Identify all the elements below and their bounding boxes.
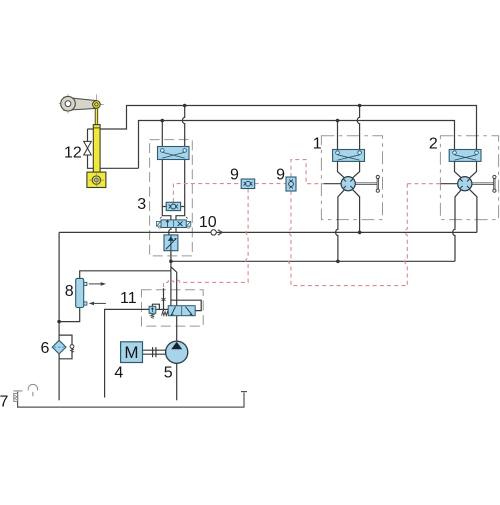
pilot operated check valve in block 3 bbox=[166, 202, 180, 210]
junction rail A / valve 3 bbox=[183, 104, 187, 108]
wire ball 1 lever arm bbox=[355, 178, 378, 189]
check valve 9a bbox=[241, 179, 255, 189]
filter 6 bbox=[52, 340, 66, 354]
pilot line valve 9a to valve 11 bbox=[164, 189, 249, 289]
wire valve 11 feedback loop bbox=[171, 300, 201, 310]
node 10 coupling bbox=[211, 230, 222, 235]
wire ball 2 bottom right to rail 1 bbox=[470, 190, 477, 233]
junction rail 1 / ball 1 bbox=[358, 231, 362, 235]
wire cooler feed bbox=[80, 271, 171, 279]
brake actuator rectangle of block 1 bbox=[333, 150, 365, 162]
wire rail 1 (node 10 line) bbox=[59, 231, 477, 233]
pilot line stub to ball 2 bbox=[407, 183, 440, 185]
heat exchanger 8 bbox=[76, 278, 106, 307]
wire bypass valve 12 upper bbox=[87, 129, 89, 141]
svg-text:1: 1 bbox=[313, 136, 322, 153]
svg-text:9: 9 bbox=[276, 167, 285, 184]
svg-text:3: 3 bbox=[137, 196, 146, 213]
wire ball 2 bottom left to rail 2 (hop over rail 1) bbox=[453, 190, 462, 262]
wire rail 2 bbox=[171, 260, 455, 262]
relief valve in block 11 bbox=[149, 306, 156, 318]
ball valve 2 lever pivots bbox=[493, 175, 496, 178]
pilot valve 11 body bbox=[162, 306, 196, 316]
tank level gauge bbox=[14, 391, 23, 402]
bypass valve 12 bbox=[84, 141, 92, 155]
wire valve 3 outlet through flow control (hop over rail 1) bbox=[169, 227, 171, 261]
filter bypass check valve bbox=[70, 345, 74, 353]
svg-text:7: 7 bbox=[0, 393, 8, 410]
pilot line to check valve of block 3 bbox=[173, 184, 241, 202]
svg-text:5: 5 bbox=[164, 364, 173, 381]
svg-text:10: 10 bbox=[199, 214, 217, 231]
enclosure box 3 bbox=[150, 140, 193, 256]
wire ball 2 lever arm bbox=[472, 178, 495, 189]
junction rail 2 / pump branch bbox=[169, 260, 173, 264]
valve 11 return spring bbox=[162, 312, 169, 316]
wire relief to valve 11 bbox=[156, 308, 169, 310]
junction rail A / valve 1 bbox=[358, 104, 362, 108]
wire ball 1 bottom right to rail 1 bbox=[353, 190, 360, 233]
wire valve 3 internal right branch bbox=[176, 160, 185, 221]
wire cylinder top port left stub bbox=[88, 128, 94, 130]
pilot line valve 9b bottom run bbox=[289, 191, 408, 286]
asterisk mark bbox=[161, 297, 165, 302]
wire valve 3 check valve right stub bbox=[181, 206, 185, 208]
wire cylinder bottom port to rail B bbox=[100, 167, 138, 169]
svg-text:12: 12 bbox=[64, 145, 82, 162]
enclosure box 1 bbox=[321, 136, 382, 220]
coupling ticks bbox=[153, 347, 156, 357]
junction rail B / valve 1 bbox=[336, 119, 340, 123]
wire left return riser bbox=[58, 232, 60, 340]
junction rail 2 / ball 1 drop bbox=[336, 260, 340, 264]
svg-text:4: 4 bbox=[114, 364, 123, 381]
brake actuator rectangle of block 2 bbox=[449, 150, 481, 162]
wire ball 1 top funnel bbox=[338, 161, 360, 177]
breather bbox=[28, 384, 37, 396]
wire ball 2 top funnel bbox=[455, 161, 477, 177]
ball valve 1 lever pivots bbox=[376, 175, 379, 178]
wire pump suction bbox=[176, 363, 178, 400]
electric motor 4 bbox=[121, 342, 143, 363]
wire fork left branch to valve 11 bbox=[170, 261, 172, 306]
brake actuator rectangle of block 3 bbox=[158, 147, 190, 160]
wire valve 3 internal left branch bbox=[162, 160, 171, 221]
svg-text:2: 2 bbox=[429, 136, 438, 153]
wire ball 1 bottom left to rail 2 (hop over rail 1) bbox=[336, 190, 345, 262]
svg-text:11: 11 bbox=[120, 290, 137, 307]
check valve 9b bbox=[286, 177, 296, 191]
pump 5 bbox=[166, 341, 188, 363]
wire filter to tank bbox=[58, 354, 60, 401]
wire rail B bbox=[139, 121, 455, 169]
wire rail B drop to valve 1 bbox=[337, 121, 339, 151]
wire valve 11 pilot black segment bbox=[163, 288, 165, 311]
wire valve 11 to pump bbox=[176, 316, 178, 342]
wire valve 11 drain to tank bbox=[105, 309, 150, 397]
ball valve 1 bbox=[341, 177, 355, 191]
svg-text:M: M bbox=[124, 343, 138, 362]
svg-text:8: 8 bbox=[65, 283, 74, 300]
wire relief loop bbox=[152, 304, 159, 309]
pilot line valve 9b to ball 1 bbox=[291, 160, 324, 184]
wire bypass valve 12 lower bbox=[88, 155, 94, 168]
enclosure box 11 bbox=[142, 290, 204, 326]
wire ball 1 pilot stub bbox=[324, 183, 342, 185]
hydraulic cylinder 12 assembly bbox=[87, 94, 106, 190]
wire rail B drop to valve 3 bbox=[161, 121, 163, 148]
enclosure box 2 bbox=[440, 136, 498, 220]
tank 7 bbox=[18, 392, 247, 408]
svg-text:6: 6 bbox=[40, 340, 49, 357]
wire ball 2 pilot stub bbox=[441, 183, 459, 185]
ball valve 2 bbox=[458, 177, 472, 191]
wire valve 3 check valve left stub bbox=[162, 206, 166, 208]
wire cooler outlet bbox=[59, 307, 80, 321]
svg-text:9: 9 bbox=[230, 167, 239, 184]
junction rail B / valve 3 bbox=[161, 119, 165, 123]
wire filter bypass upper bbox=[59, 335, 72, 345]
wire rail A top bbox=[100, 106, 476, 151]
wire motor coupling lines bbox=[143, 350, 166, 354]
lever arm assembly bbox=[59, 94, 104, 113]
junction cooler return bbox=[57, 320, 61, 324]
wire valve 3 tank port to rail 1 bbox=[175, 227, 177, 232]
wire filter bypass lower bbox=[59, 348, 72, 359]
pilot line between check valves 9 bbox=[255, 183, 286, 185]
wire fork right branch pump pressure bbox=[171, 267, 177, 306]
flow control valve of block 3 bbox=[164, 235, 178, 251]
wire rail A drop to valve 1 (hop over rail B) bbox=[357, 106, 359, 151]
solenoid valve of block 3 bbox=[157, 217, 191, 228]
wire rail A drop to valve 3 (hop over rail B) bbox=[182, 106, 184, 148]
pilot line riser to ball 2 bbox=[405, 184, 407, 286]
